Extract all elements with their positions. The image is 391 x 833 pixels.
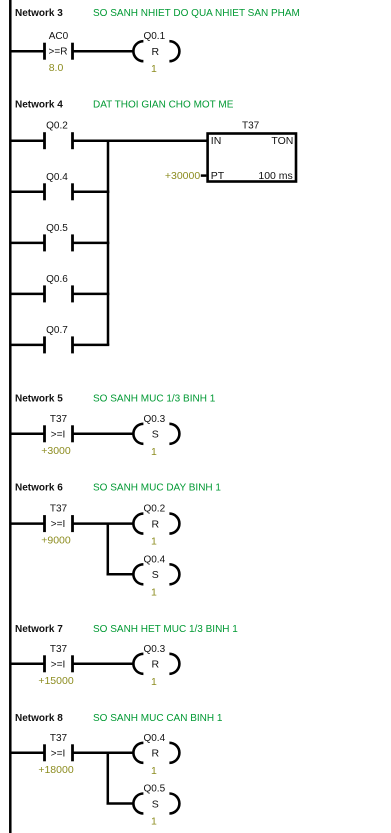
svg-text:Q0.1: Q0.1	[143, 31, 165, 42]
compare contact T37 >=I	[41, 504, 72, 547]
svg-text:1: 1	[151, 446, 157, 458]
svg-text:Q0.4: Q0.4	[46, 172, 68, 183]
svg-text:IN: IN	[211, 135, 222, 147]
wire	[73, 50, 134, 53]
left power rail	[9, 0, 12, 833]
svg-text:SO SANH MUC 1/3 BINH 1: SO SANH MUC 1/3 BINH 1	[93, 394, 216, 405]
svg-text:Q0.4: Q0.4	[143, 554, 165, 565]
wire	[73, 663, 134, 666]
svg-text:S: S	[152, 429, 159, 441]
svg-text:Q0.5: Q0.5	[46, 223, 68, 234]
svg-text:SO SANH NHIET DO QUA NHIET SAN: SO SANH NHIET DO QUA NHIET SAN PHAM	[93, 8, 300, 19]
coil Q0.3 R	[133, 644, 179, 688]
coil Q0.1 R	[133, 31, 179, 75]
coil Q0.5 S	[133, 784, 179, 828]
svg-text:+30000: +30000	[165, 170, 200, 182]
svg-text:Q0.6: Q0.6	[46, 274, 68, 285]
svg-text:R: R	[152, 748, 160, 760]
svg-text:+18000: +18000	[38, 764, 73, 776]
contact Q0.5	[45, 223, 73, 252]
wire rung1	[10, 139, 44, 142]
svg-text:R: R	[152, 518, 160, 530]
contact Q0.7	[45, 325, 73, 354]
svg-text:Network 6: Network 6	[15, 483, 63, 494]
svg-text:PT: PT	[211, 170, 225, 182]
svg-text:T37: T37	[50, 414, 68, 425]
wire	[10, 752, 44, 755]
wire	[73, 752, 134, 755]
svg-text:S: S	[152, 798, 159, 810]
parallel bus	[107, 140, 110, 345]
wire	[73, 344, 110, 347]
svg-text:TON: TON	[271, 135, 293, 147]
wire	[73, 293, 110, 296]
svg-text:T37: T37	[50, 504, 68, 515]
wire branch	[107, 573, 134, 576]
svg-text:>=I: >=I	[51, 748, 65, 759]
svg-text:Network 3: Network 3	[15, 8, 63, 19]
coil Q0.4 R	[133, 733, 179, 777]
svg-text:T37: T37	[50, 644, 68, 655]
svg-text:Network 5: Network 5	[15, 394, 63, 405]
wire rung5	[10, 344, 44, 347]
wire	[10, 522, 44, 525]
svg-text:100 ms: 100 ms	[258, 170, 292, 182]
svg-text:Network 8: Network 8	[15, 713, 63, 724]
contact Q0.4	[45, 172, 73, 201]
svg-text:Q0.3: Q0.3	[143, 414, 165, 425]
coil Q0.2 R	[133, 504, 179, 548]
svg-text:+9000: +9000	[41, 535, 71, 547]
coil Q0.3 S	[133, 414, 179, 458]
svg-text:SO SANH HET MUC 1/3 BINH 1: SO SANH HET MUC 1/3 BINH 1	[93, 624, 238, 635]
svg-text:Q0.2: Q0.2	[143, 504, 165, 515]
svg-text:>=R: >=R	[49, 47, 68, 58]
branch junction	[107, 524, 110, 575]
wire	[10, 433, 44, 436]
svg-text:Q0.2: Q0.2	[46, 121, 68, 132]
svg-text:>=I: >=I	[51, 659, 65, 670]
wire	[73, 191, 110, 194]
svg-text:SO SANH MUC CAN BINH 1: SO SANH MUC CAN BINH 1	[93, 713, 223, 724]
wire branch	[107, 802, 134, 805]
PT input stub	[201, 174, 207, 177]
wire	[73, 433, 134, 436]
wire to timer	[73, 139, 208, 142]
contact Q0.2	[45, 121, 73, 150]
svg-text:1: 1	[151, 816, 157, 828]
svg-text:+3000: +3000	[41, 445, 71, 457]
compare contact T37 >=I	[38, 733, 73, 776]
svg-text:8.0: 8.0	[49, 62, 64, 74]
compare contact T37 >=I	[41, 414, 72, 457]
svg-text:Q0.3: Q0.3	[143, 644, 165, 655]
svg-text:Q0.7: Q0.7	[46, 325, 68, 336]
wire	[10, 50, 44, 53]
wire	[73, 242, 110, 245]
wire	[73, 522, 134, 525]
svg-text:T37: T37	[50, 733, 68, 744]
svg-text:Network 4: Network 4	[15, 99, 63, 110]
svg-text:DAT THOI GIAN CHO MOT ME: DAT THOI GIAN CHO MOT ME	[93, 99, 234, 110]
svg-text:Q0.4: Q0.4	[143, 733, 165, 744]
svg-text:1: 1	[151, 536, 157, 548]
coil Q0.4 S	[133, 554, 179, 598]
svg-text:Network 7: Network 7	[15, 624, 63, 635]
svg-text:Q0.5: Q0.5	[143, 784, 165, 795]
svg-text:AC0: AC0	[49, 31, 69, 42]
wire	[10, 663, 44, 666]
svg-text:R: R	[152, 659, 160, 671]
svg-text:1: 1	[151, 63, 157, 75]
compare contact T37 >=I	[38, 644, 73, 687]
wire rung3	[10, 242, 44, 245]
timer T37 TON box	[208, 121, 296, 182]
svg-text:+15000: +15000	[38, 675, 73, 687]
svg-text:1: 1	[151, 765, 157, 777]
wire rung2	[10, 191, 44, 194]
svg-text:>=I: >=I	[51, 519, 65, 530]
svg-text:1: 1	[151, 586, 157, 598]
svg-text:SO SANH MUC DAY BINH 1: SO SANH MUC DAY BINH 1	[93, 483, 221, 494]
compare contact AC0 >=R	[45, 31, 73, 74]
branch junction	[107, 753, 110, 804]
svg-text:S: S	[152, 569, 159, 581]
wire rung4	[10, 293, 44, 296]
svg-text:T37: T37	[242, 121, 260, 132]
svg-text:R: R	[152, 46, 160, 58]
contact Q0.6	[45, 274, 73, 303]
svg-text:>=I: >=I	[51, 429, 65, 440]
svg-text:1: 1	[151, 676, 157, 688]
